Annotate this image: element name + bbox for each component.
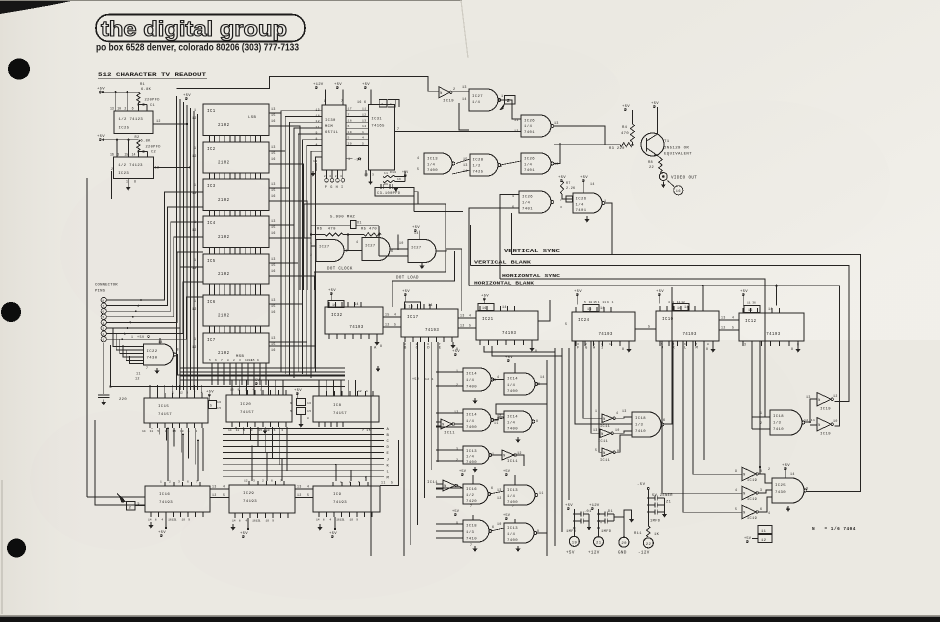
svg-text:13: 13 bbox=[313, 159, 318, 163]
svg-text:74193: 74193 bbox=[502, 332, 516, 336]
svg-text:+5V: +5V bbox=[362, 83, 370, 87]
svg-text:2102: 2102 bbox=[218, 352, 230, 356]
svg-text:9: 9 bbox=[257, 359, 259, 362]
svg-text:B: B bbox=[404, 347, 407, 351]
svg-text:11: 11 bbox=[362, 107, 367, 111]
svg-text:EQUIVALENT: EQUIVALENT bbox=[664, 153, 692, 157]
svg-text:F: F bbox=[577, 347, 580, 351]
svg-text:5: 5 bbox=[584, 301, 586, 304]
svg-text:13: 13 bbox=[271, 257, 276, 261]
svg-text:R6 470: R6 470 bbox=[317, 228, 336, 232]
svg-text:7: 7 bbox=[146, 366, 148, 370]
svg-text:IC13: IC13 bbox=[507, 489, 518, 493]
svg-text:8: 8 bbox=[239, 520, 241, 523]
svg-text:3: 3 bbox=[744, 343, 746, 347]
svg-text:N: N bbox=[440, 92, 442, 96]
svg-text:10: 10 bbox=[615, 428, 620, 432]
svg-text:IC5: IC5 bbox=[207, 260, 216, 264]
svg-text:2: 2 bbox=[124, 107, 126, 111]
svg-text:8: 8 bbox=[380, 344, 382, 348]
svg-text:2102: 2102 bbox=[218, 162, 230, 166]
svg-text:11: 11 bbox=[609, 343, 613, 346]
svg-text:DOT LOAD: DOT LOAD bbox=[396, 277, 419, 281]
svg-text:+5V: +5V bbox=[656, 290, 664, 294]
svg-text:15: 15 bbox=[271, 342, 276, 346]
svg-text:N: N bbox=[818, 424, 820, 428]
svg-text:IC4: IC4 bbox=[207, 222, 216, 226]
svg-text:5: 5 bbox=[469, 324, 471, 328]
svg-text:8: 8 bbox=[177, 349, 179, 353]
svg-text:3: 3 bbox=[494, 378, 496, 382]
svg-text:IC14: IC14 bbox=[466, 373, 477, 377]
svg-text:2: 2 bbox=[129, 506, 132, 510]
svg-text:12: 12 bbox=[761, 539, 767, 543]
svg-text:+5V: +5V bbox=[294, 389, 302, 393]
svg-text:16: 16 bbox=[217, 401, 221, 404]
svg-text:5: 5 bbox=[362, 142, 364, 146]
svg-text:IC13: IC13 bbox=[507, 527, 518, 531]
svg-text:R8: R8 bbox=[648, 161, 653, 165]
svg-text:+5V: +5V bbox=[622, 105, 630, 109]
svg-text:74193: 74193 bbox=[333, 501, 347, 505]
svg-text:16: 16 bbox=[271, 348, 276, 352]
svg-text:1MFD: 1MFD bbox=[566, 530, 577, 534]
svg-text:1: 1 bbox=[612, 301, 614, 304]
svg-text:13: 13 bbox=[806, 395, 811, 399]
svg-text:8: 8 bbox=[536, 419, 538, 423]
svg-text:+5V: +5V bbox=[402, 290, 410, 294]
svg-text:15: 15 bbox=[271, 188, 276, 192]
svg-text:I: I bbox=[341, 186, 344, 190]
svg-text:3: 3 bbox=[281, 429, 283, 432]
svg-text:16: 16 bbox=[482, 306, 487, 310]
svg-text:IC13: IC13 bbox=[466, 450, 477, 454]
svg-text:+12V: +12V bbox=[588, 552, 600, 556]
svg-text:7430: 7430 bbox=[775, 491, 786, 495]
svg-text:14: 14 bbox=[590, 182, 595, 186]
svg-text:R1: R1 bbox=[140, 83, 145, 87]
svg-text:3: 3 bbox=[560, 206, 562, 209]
svg-text:12: 12 bbox=[721, 326, 726, 330]
svg-text:1/2 74123: 1/2 74123 bbox=[119, 117, 144, 122]
svg-text:IC14: IC14 bbox=[466, 414, 477, 418]
svg-text:IC25: IC25 bbox=[775, 484, 786, 488]
svg-text:8: 8 bbox=[323, 519, 325, 522]
svg-text:1: 1 bbox=[366, 390, 368, 393]
svg-text:4: 4 bbox=[307, 485, 309, 489]
svg-text:8: 8 bbox=[382, 103, 384, 106]
svg-text:+5V: +5V bbox=[558, 176, 566, 180]
svg-text:5: 5 bbox=[565, 323, 567, 327]
svg-text:15: 15 bbox=[217, 407, 221, 410]
svg-text:4: 4 bbox=[668, 301, 670, 304]
svg-text:IC18: IC18 bbox=[466, 525, 477, 529]
svg-text:IC15: IC15 bbox=[158, 405, 169, 409]
svg-text:12: 12 bbox=[358, 390, 362, 393]
svg-text:IC11: IC11 bbox=[444, 432, 455, 436]
svg-text:IC21: IC21 bbox=[482, 318, 494, 322]
svg-text:5: 5 bbox=[648, 326, 650, 330]
svg-text:13: 13 bbox=[454, 410, 459, 414]
svg-text:5.990 MHZ: 5.990 MHZ bbox=[330, 216, 355, 220]
svg-text:IC19: IC19 bbox=[747, 498, 757, 502]
svg-text:12: 12 bbox=[297, 493, 302, 497]
svg-text:2102: 2102 bbox=[218, 236, 230, 240]
svg-text:8: 8 bbox=[500, 165, 502, 169]
svg-text:16: 16 bbox=[271, 119, 276, 123]
svg-text:7: 7 bbox=[601, 343, 603, 346]
svg-text:LSB: LSB bbox=[248, 116, 256, 120]
svg-text:1/2 74123: 1/2 74123 bbox=[118, 163, 143, 168]
svg-text:4: 4 bbox=[245, 520, 247, 523]
svg-text:4: 4 bbox=[497, 375, 499, 379]
svg-text:2: 2 bbox=[768, 467, 770, 471]
svg-text:N: N bbox=[444, 485, 446, 489]
svg-text:9: 9 bbox=[316, 131, 318, 135]
svg-text:IC11: IC11 bbox=[507, 460, 518, 464]
svg-text:C: C bbox=[387, 440, 390, 444]
svg-text:11: 11 bbox=[236, 429, 240, 432]
svg-text:C1: C1 bbox=[150, 104, 155, 108]
svg-text:13: 13 bbox=[463, 163, 468, 167]
svg-text:C: C bbox=[416, 347, 419, 351]
svg-text:36: 36 bbox=[752, 302, 756, 305]
svg-text:8: 8 bbox=[155, 519, 157, 522]
svg-text:7410: 7410 bbox=[466, 538, 477, 542]
svg-text:12: 12 bbox=[316, 119, 321, 123]
svg-text:13: 13 bbox=[362, 118, 367, 122]
svg-text:7: 7 bbox=[348, 113, 350, 117]
svg-text:11: 11 bbox=[602, 301, 606, 304]
svg-text:6: 6 bbox=[348, 124, 350, 128]
svg-text:D: D bbox=[427, 347, 430, 351]
svg-text:1/3: 1/3 bbox=[773, 421, 781, 426]
svg-text:7410: 7410 bbox=[773, 428, 784, 432]
svg-text:2: 2 bbox=[103, 333, 105, 336]
svg-text:11: 11 bbox=[316, 125, 321, 129]
svg-text:15: 15 bbox=[258, 429, 262, 432]
svg-text:7401: 7401 bbox=[524, 169, 535, 173]
svg-text:IC11: IC11 bbox=[427, 481, 438, 485]
svg-text:+5V: +5V bbox=[505, 356, 513, 360]
svg-text:IC14: IC14 bbox=[507, 378, 518, 382]
svg-text:16: 16 bbox=[110, 153, 114, 157]
svg-text:10: 10 bbox=[833, 419, 838, 423]
svg-text:T1: T1 bbox=[664, 140, 670, 144]
svg-text:IC19: IC19 bbox=[747, 517, 757, 521]
svg-text:10: 10 bbox=[182, 519, 186, 522]
svg-text:A: A bbox=[387, 428, 390, 432]
svg-text:3: 3 bbox=[253, 480, 255, 483]
svg-text:74157: 74157 bbox=[158, 413, 172, 417]
svg-text:R5 470: R5 470 bbox=[361, 228, 377, 232]
svg-text:4: 4 bbox=[768, 511, 770, 515]
svg-text:-5V: -5V bbox=[354, 159, 362, 163]
svg-text:3: 3 bbox=[251, 429, 253, 432]
svg-text:5: 5 bbox=[391, 481, 393, 485]
svg-text:6: 6 bbox=[391, 249, 393, 253]
svg-text:14: 14 bbox=[600, 307, 605, 311]
svg-text:D1: D1 bbox=[608, 510, 613, 514]
svg-text:6: 6 bbox=[427, 343, 429, 346]
svg-text:21: 21 bbox=[596, 542, 602, 546]
svg-text:+5V: +5V bbox=[412, 378, 420, 382]
svg-text:1MFD: 1MFD bbox=[650, 520, 661, 524]
svg-text:9: 9 bbox=[356, 519, 358, 522]
svg-text:5: 5 bbox=[290, 410, 292, 413]
svg-text:GND: GND bbox=[618, 552, 627, 556]
svg-text:IC26: IC26 bbox=[576, 198, 587, 202]
svg-text:2: 2 bbox=[585, 343, 587, 346]
svg-text:74193: 74193 bbox=[682, 333, 696, 337]
svg-text:3: 3 bbox=[117, 153, 119, 157]
svg-text:4: 4 bbox=[223, 485, 225, 489]
svg-text:11: 11 bbox=[747, 302, 751, 305]
svg-text:R11: R11 bbox=[634, 532, 642, 536]
svg-text:74193: 74193 bbox=[425, 329, 439, 333]
svg-text:IC8: IC8 bbox=[333, 404, 342, 408]
svg-text:7430: 7430 bbox=[147, 357, 158, 361]
svg-text:2: 2 bbox=[310, 253, 312, 257]
svg-text:15: 15 bbox=[271, 225, 276, 229]
svg-text:1: 1 bbox=[349, 481, 351, 484]
svg-text:6: 6 bbox=[760, 507, 762, 511]
svg-text:74193: 74193 bbox=[349, 326, 363, 330]
svg-text:7425: 7425 bbox=[473, 171, 484, 175]
svg-text:3: 3 bbox=[103, 327, 105, 330]
svg-text:7400: 7400 bbox=[466, 461, 477, 465]
svg-text:4: 4 bbox=[103, 322, 105, 325]
svg-text:N: N bbox=[818, 399, 820, 403]
svg-text:L: L bbox=[387, 470, 390, 474]
svg-text:4: 4 bbox=[735, 488, 737, 492]
svg-text:13: 13 bbox=[460, 314, 465, 318]
svg-text:12: 12 bbox=[244, 480, 248, 483]
svg-text:1: 1 bbox=[160, 481, 162, 484]
svg-text:16: 16 bbox=[307, 402, 311, 405]
svg-text:14: 14 bbox=[316, 519, 320, 522]
svg-text:10: 10 bbox=[497, 522, 502, 526]
svg-text:7401: 7401 bbox=[576, 209, 587, 213]
svg-text:19: 19 bbox=[348, 130, 353, 134]
svg-text:1: 1 bbox=[595, 409, 597, 413]
svg-text:7: 7 bbox=[560, 199, 562, 202]
svg-text:8: 8 bbox=[797, 343, 799, 347]
svg-text:11: 11 bbox=[384, 172, 388, 175]
svg-text:1/4: 1/4 bbox=[466, 455, 474, 460]
svg-text:15: 15 bbox=[271, 113, 276, 117]
svg-text:1/4: 1/4 bbox=[427, 163, 435, 168]
svg-text:6: 6 bbox=[364, 100, 366, 104]
svg-text:13: 13 bbox=[212, 485, 217, 489]
svg-text:7400: 7400 bbox=[507, 539, 518, 543]
svg-text:7401: 7401 bbox=[522, 208, 533, 212]
svg-text:13: 13 bbox=[554, 121, 559, 125]
svg-text:3: 3 bbox=[346, 249, 348, 253]
svg-text:14: 14 bbox=[684, 306, 689, 310]
svg-text:X1: X1 bbox=[357, 222, 362, 226]
svg-text:IC26: IC26 bbox=[524, 158, 535, 162]
svg-text:15: 15 bbox=[271, 263, 276, 267]
svg-text:+5V: +5V bbox=[334, 83, 342, 87]
svg-text:IC26: IC26 bbox=[524, 120, 535, 124]
svg-text:+5V: +5V bbox=[580, 176, 588, 180]
svg-text:1: 1 bbox=[348, 157, 350, 161]
svg-text:17: 17 bbox=[348, 107, 353, 111]
svg-text:7400: 7400 bbox=[427, 169, 438, 173]
svg-text:IC11: IC11 bbox=[600, 459, 610, 463]
svg-text:E: E bbox=[387, 452, 390, 456]
svg-text:N: N bbox=[603, 418, 605, 422]
svg-text:7: 7 bbox=[221, 359, 223, 362]
svg-text:4: 4 bbox=[316, 142, 318, 146]
svg-text:10: 10 bbox=[350, 519, 354, 522]
svg-text:R9: R9 bbox=[384, 183, 388, 186]
svg-text:IC17: IC17 bbox=[407, 316, 419, 320]
svg-text:16: 16 bbox=[748, 308, 753, 312]
svg-text:IC9: IC9 bbox=[333, 493, 342, 497]
svg-text:14: 14 bbox=[462, 97, 467, 101]
svg-text:+5V: +5V bbox=[97, 135, 105, 139]
svg-text:+: + bbox=[600, 522, 602, 526]
svg-text:IC11: IC11 bbox=[598, 440, 608, 444]
svg-text:14: 14 bbox=[354, 303, 359, 307]
svg-text:3: 3 bbox=[239, 359, 241, 362]
svg-text:1/4: 1/4 bbox=[507, 532, 515, 537]
svg-text:5: 5 bbox=[157, 430, 159, 433]
svg-text:2: 2 bbox=[456, 383, 458, 387]
svg-text:7: 7 bbox=[512, 504, 514, 508]
svg-text:IC32: IC32 bbox=[331, 314, 343, 318]
svg-text:11: 11 bbox=[150, 430, 154, 433]
svg-text:5: 5 bbox=[595, 448, 597, 452]
svg-text:9: 9 bbox=[735, 469, 737, 473]
svg-text:16: 16 bbox=[332, 303, 337, 307]
svg-text:3: 3 bbox=[760, 488, 762, 492]
svg-text:IC18: IC18 bbox=[773, 415, 784, 419]
svg-text:4: 4 bbox=[394, 313, 396, 317]
svg-text:1: 1 bbox=[343, 519, 345, 522]
svg-text:3: 3 bbox=[456, 447, 458, 451]
svg-text:IC25: IC25 bbox=[119, 127, 130, 131]
svg-text:11: 11 bbox=[494, 421, 499, 425]
svg-text:D: D bbox=[387, 446, 390, 450]
svg-text:15: 15 bbox=[172, 430, 176, 433]
svg-text:12: 12 bbox=[156, 120, 161, 124]
svg-text:15: 15 bbox=[307, 410, 311, 413]
svg-text:13: 13 bbox=[271, 336, 276, 340]
svg-text:16: 16 bbox=[357, 100, 362, 104]
svg-text:6: 6 bbox=[492, 525, 494, 529]
svg-text:15: 15 bbox=[251, 359, 255, 362]
svg-text:7: 7 bbox=[470, 504, 472, 508]
svg-text:13: 13 bbox=[297, 485, 302, 489]
svg-text:22: 22 bbox=[649, 166, 654, 170]
svg-text:12: 12 bbox=[212, 493, 217, 497]
svg-text:6: 6 bbox=[215, 359, 217, 362]
svg-text:po box 6528 denver, colorado 8: po box 6528 denver, colorado 80206 (303)… bbox=[96, 43, 299, 54]
svg-text:N: N bbox=[601, 433, 603, 437]
svg-text:7: 7 bbox=[341, 99, 343, 103]
svg-text:9: 9 bbox=[324, 99, 326, 103]
svg-text:IC27: IC27 bbox=[319, 246, 329, 250]
svg-text:2: 2 bbox=[262, 480, 264, 483]
svg-text:IC24: IC24 bbox=[578, 319, 590, 323]
svg-text:VERTICAL BLANK: VERTICAL BLANK bbox=[474, 261, 532, 266]
svg-text:12 1: 12 1 bbox=[425, 378, 434, 381]
svg-text:J: J bbox=[387, 458, 390, 462]
svg-text:N: N bbox=[743, 473, 745, 477]
svg-text:4: 4 bbox=[732, 316, 734, 320]
svg-text:MCM: MCM bbox=[325, 125, 333, 129]
svg-text:2: 2 bbox=[169, 481, 171, 484]
svg-text:11: 11 bbox=[539, 491, 544, 495]
svg-text:IC30: IC30 bbox=[325, 119, 336, 123]
svg-text:N: N bbox=[603, 452, 605, 456]
svg-text:1: 1 bbox=[259, 520, 261, 523]
svg-text:.01: .01 bbox=[584, 510, 592, 514]
svg-text:1: 1 bbox=[598, 301, 600, 304]
svg-text:H: H bbox=[336, 186, 339, 190]
svg-text:4: 4 bbox=[469, 314, 471, 318]
svg-text:18: 18 bbox=[316, 113, 321, 117]
svg-text:IC26: IC26 bbox=[522, 196, 533, 200]
svg-text:6: 6 bbox=[684, 343, 686, 346]
svg-text:7: 7 bbox=[696, 343, 698, 346]
svg-text:16: 16 bbox=[271, 269, 276, 273]
svg-text:10: 10 bbox=[554, 162, 559, 166]
svg-text:7400: 7400 bbox=[507, 428, 518, 432]
svg-text:10: 10 bbox=[266, 520, 270, 523]
svg-text:VIDEO OUT: VIDEO OUT bbox=[671, 177, 697, 181]
svg-text:7401: 7401 bbox=[524, 131, 535, 135]
svg-text:5: 5 bbox=[358, 481, 360, 484]
svg-text:+5V: +5V bbox=[97, 88, 105, 92]
svg-text:+5V: +5V bbox=[328, 289, 336, 293]
svg-text:+5V: +5V bbox=[565, 504, 573, 508]
svg-text:10: 10 bbox=[117, 107, 121, 111]
svg-text:14: 14 bbox=[142, 430, 146, 433]
svg-text:11: 11 bbox=[136, 373, 141, 377]
svg-text:5: 5 bbox=[103, 316, 105, 319]
svg-text:G: G bbox=[330, 186, 333, 190]
svg-text:N: N bbox=[503, 455, 505, 459]
svg-text:15: 15 bbox=[271, 151, 276, 155]
svg-text:8: 8 bbox=[806, 488, 808, 492]
svg-text:12: 12 bbox=[362, 113, 367, 117]
svg-text:IC19: IC19 bbox=[747, 479, 757, 483]
svg-text:IC19: IC19 bbox=[820, 408, 831, 412]
svg-text:16: 16 bbox=[271, 157, 276, 161]
svg-text:IC31: IC31 bbox=[371, 117, 382, 121]
svg-text:2102: 2102 bbox=[218, 199, 230, 203]
svg-text:13: 13 bbox=[110, 107, 114, 111]
svg-text:C3-100PFD: C3-100PFD bbox=[377, 192, 401, 196]
svg-text:2: 2 bbox=[456, 458, 458, 462]
svg-text:E: E bbox=[439, 347, 442, 351]
svg-text:IC27: IC27 bbox=[472, 95, 483, 99]
svg-text:8: 8 bbox=[307, 417, 309, 420]
svg-text:2.2K: 2.2K bbox=[566, 186, 576, 190]
svg-text:18: 18 bbox=[348, 118, 353, 122]
svg-text:6: 6 bbox=[103, 311, 105, 314]
svg-text:220PFD: 220PFD bbox=[146, 146, 161, 150]
svg-text:+5V: +5V bbox=[782, 464, 790, 468]
svg-text:74157: 74157 bbox=[240, 411, 254, 415]
svg-text:10: 10 bbox=[589, 301, 593, 304]
svg-text:16: 16 bbox=[587, 307, 592, 311]
svg-text:1/4: 1/4 bbox=[466, 378, 474, 383]
